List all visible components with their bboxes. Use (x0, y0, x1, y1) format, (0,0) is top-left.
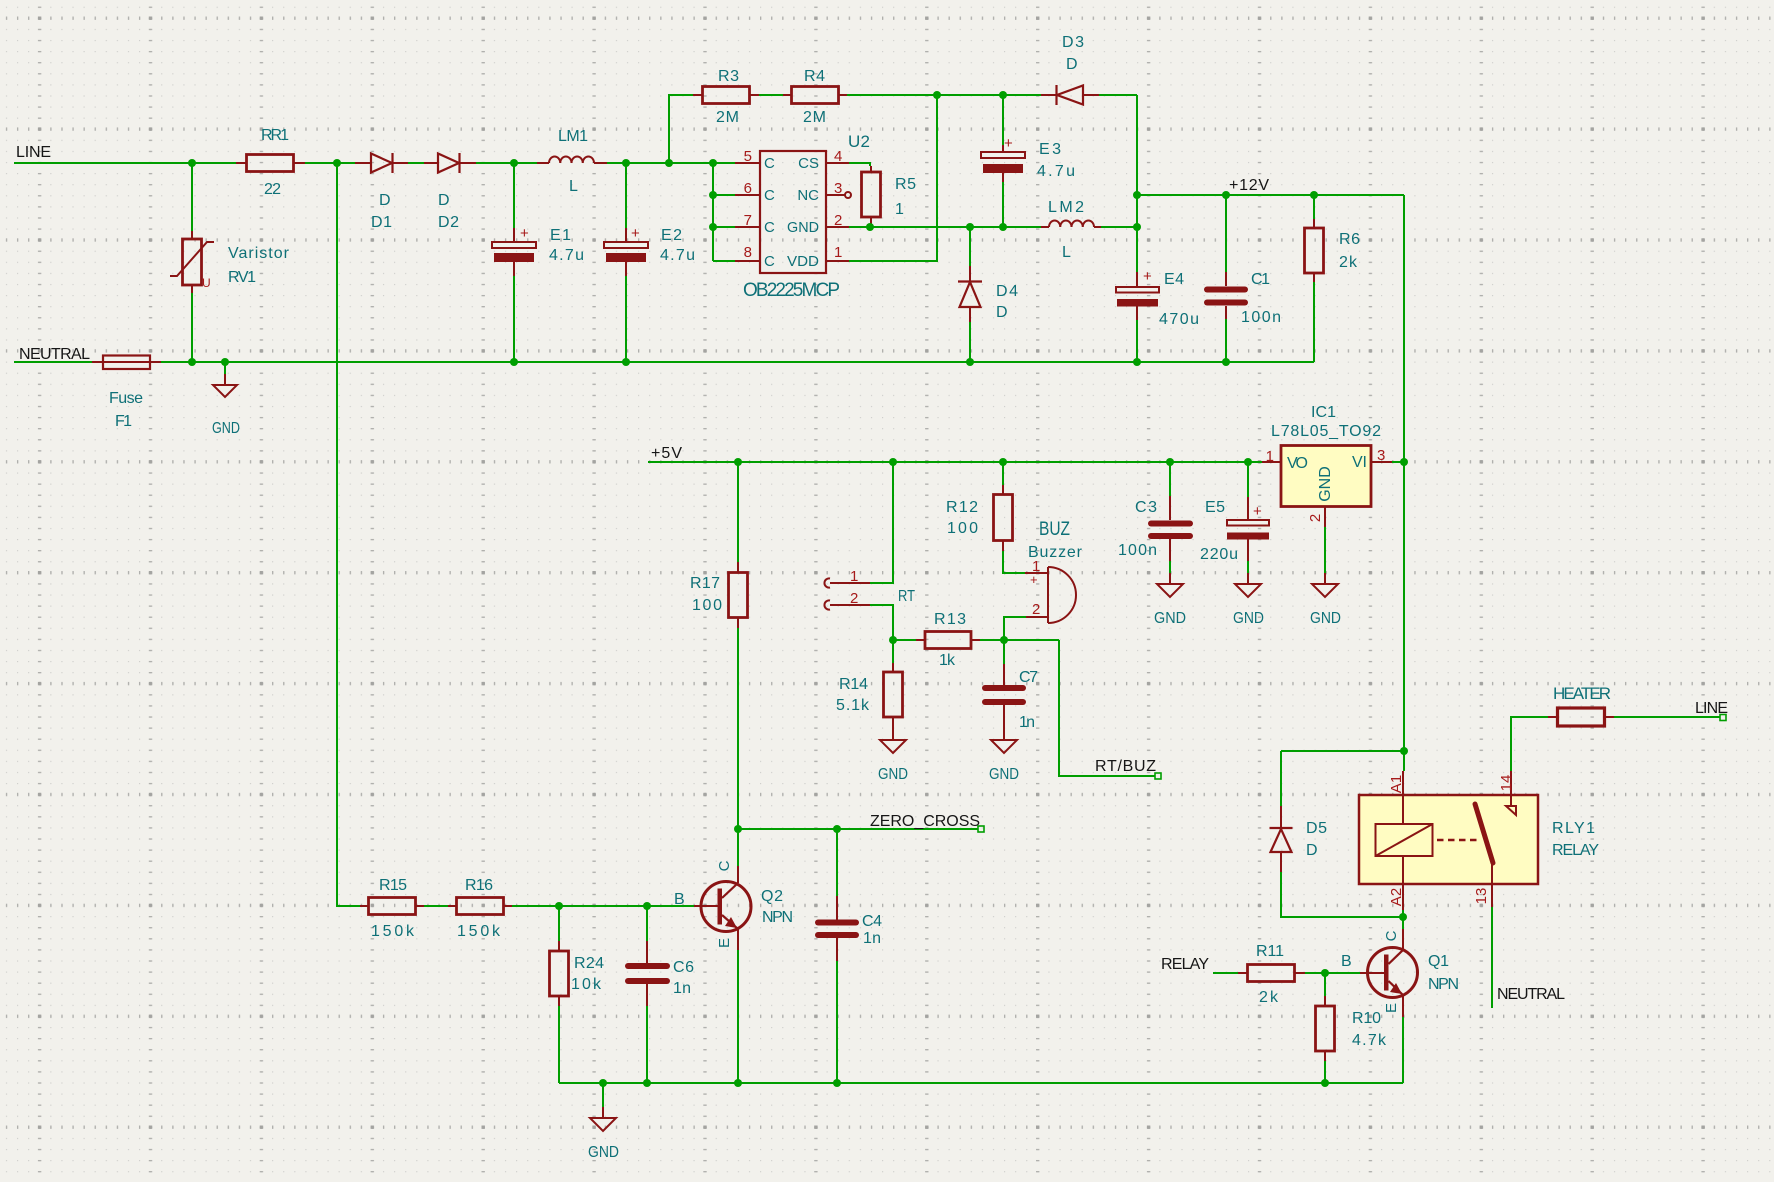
wire relay A2 to Q1 collector (1402, 910, 1404, 929)
resistor R5 (862, 166, 917, 227)
wire C3 to GND (1169, 561, 1171, 573)
svg-text:C3: C3 (1135, 499, 1157, 516)
svg-text:1n: 1n (1019, 714, 1035, 731)
svg-text:C: C (764, 155, 775, 172)
svg-text:2: 2 (1032, 601, 1040, 618)
svg-text:10k: 10k (571, 976, 602, 993)
svg-text:1n: 1n (863, 930, 881, 947)
svg-text:100: 100 (692, 597, 722, 614)
wire C7 top (1003, 640, 1005, 664)
wire U2 pin8 stub (713, 260, 735, 262)
wire E4 top (1136, 227, 1138, 272)
svg-text:R16: R16 (465, 877, 493, 894)
svg-text:L78L05_TO92: L78L05_TO92 (1271, 423, 1381, 440)
svg-text:E4: E4 (1164, 271, 1184, 288)
junction IC1 pin3 (1400, 458, 1408, 466)
svg-text:D4: D4 (996, 283, 1018, 300)
svg-text:E: E (716, 938, 733, 948)
wire relay pin14 up to heater (1511, 717, 1548, 771)
svg-text:+: + (1253, 503, 1262, 520)
svg-text:B: B (1341, 953, 1352, 970)
svg-text:R15: R15 (379, 877, 407, 894)
wire E3 top (1002, 95, 1004, 145)
svg-text:NPN: NPN (1428, 976, 1459, 993)
svg-text:R4: R4 (804, 68, 825, 85)
svg-text:4.7k: 4.7k (1352, 1032, 1387, 1049)
wire R17 to Q2 collector (737, 628, 739, 866)
svg-text:NEUTRAL: NEUTRAL (19, 346, 90, 363)
capacitor E1 (492, 225, 584, 276)
svg-text:C: C (716, 860, 733, 871)
junction U2 pin5 (709, 159, 717, 167)
svg-text:100n: 100n (1118, 542, 1157, 559)
wire U2 left pins vertical (712, 163, 714, 261)
svg-text:220u: 220u (1200, 546, 1238, 563)
resistor R15 (360, 877, 424, 940)
ground symbol under C7 (989, 740, 1019, 783)
svg-text:RLY1: RLY1 (1552, 820, 1595, 837)
wire E2 top (625, 163, 627, 228)
svg-text:2k: 2k (1339, 254, 1358, 271)
svg-text:2M: 2M (803, 109, 826, 126)
junction LM2-E4 (1133, 223, 1141, 231)
wire E1 top (513, 163, 515, 228)
capacitor C4 (818, 896, 882, 961)
junction +5V-E5 (1244, 458, 1252, 466)
svg-text:U2: U2 (848, 132, 870, 151)
buzzer BUZ (1025, 519, 1083, 623)
wire C1 bottom (1225, 319, 1227, 362)
wire R11 to Q1 base (1305, 972, 1360, 974)
svg-text:C7: C7 (1019, 669, 1038, 686)
wire R15 lead-in (359, 905, 361, 907)
svg-text:5.1k: 5.1k (836, 697, 870, 714)
wire D3 column down (1136, 95, 1138, 195)
svg-text:VDD: VDD (787, 253, 819, 270)
svg-text:CS: CS (798, 155, 819, 172)
diode D3 (1041, 34, 1099, 105)
wire heater to LINE label (1614, 716, 1720, 718)
svg-text:B: B (674, 891, 685, 908)
wire +12V rail (1137, 194, 1404, 196)
svg-text:1: 1 (834, 244, 842, 261)
junction NEUTRAL-E1 (510, 358, 518, 366)
svg-text:R13: R13 (934, 611, 966, 628)
wire C1 top (1225, 195, 1227, 272)
wire D4 top (969, 227, 971, 266)
svg-text:R11: R11 (1256, 943, 1284, 960)
svg-text:C: C (764, 187, 775, 204)
svg-text:1n: 1n (673, 980, 691, 997)
junction R11-R10 (1321, 969, 1329, 977)
wire U2 pin7 stub (713, 226, 735, 228)
junction base-C6 (643, 902, 651, 910)
wire E2 bottom (625, 276, 627, 362)
wire VDD riser (849, 95, 937, 261)
capacitor E3 (981, 135, 1075, 182)
svg-text:RR1: RR1 (261, 127, 289, 144)
svg-text:8: 8 (744, 244, 752, 261)
svg-text:Buzzer: Buzzer (1028, 544, 1083, 561)
ground symbol under IC1 pin2 (1310, 573, 1341, 627)
svg-text:A1: A1 (1388, 775, 1405, 793)
svg-text:4.7u: 4.7u (549, 247, 584, 264)
wire Q2 base (647, 905, 694, 907)
svg-text:RELAY: RELAY (1161, 956, 1209, 973)
wire D4 bottom (969, 322, 971, 362)
svg-text:E5: E5 (1205, 499, 1225, 516)
svg-text:2: 2 (1307, 514, 1324, 522)
junction rail-Q2E (734, 1079, 742, 1087)
svg-text:+: + (631, 225, 640, 242)
wire R24 top (558, 906, 560, 941)
wire E5 top (1247, 462, 1249, 497)
junction ZERO_CROSS-C4 (833, 825, 841, 833)
svg-text:ZERO_CROSS: ZERO_CROSS (870, 813, 980, 830)
svg-text:+5V: +5V (651, 445, 682, 462)
wire NEUTRAL rail (161, 361, 1314, 363)
wire RR1 to D1 (305, 162, 355, 164)
ground symbol under C3 (1154, 573, 1186, 627)
svg-text:R24: R24 (574, 955, 604, 972)
wire GND bottom rail (559, 1082, 1403, 1084)
junction E3-pin2 (999, 223, 1007, 231)
junction LINE-R3riser (665, 159, 673, 167)
junction base-R24 (555, 902, 563, 910)
junction relay A1 (1400, 747, 1408, 755)
transistor Q2 (674, 860, 793, 950)
wire D5 branch top (1281, 750, 1404, 752)
svg-text:C: C (764, 219, 775, 236)
junction rail-R10 (1321, 1079, 1329, 1087)
resistor R12 (946, 485, 1013, 551)
svg-text:GND: GND (212, 420, 240, 437)
junction rail-C4 (833, 1079, 841, 1087)
IC U2 OB2225MCP (735, 132, 870, 301)
wire varistor top (191, 163, 193, 231)
junction +5V-R12 (999, 458, 1007, 466)
ground symbol under R14 (878, 740, 908, 783)
wire C4 bottom (836, 961, 838, 1083)
svg-text:OB2225MCP: OB2225MCP (743, 280, 840, 301)
wire RT pin1 to +5V (870, 462, 893, 583)
diode D2 (424, 153, 476, 231)
wire D3 to corner (1099, 94, 1137, 96)
label ZERO_CROSS (870, 813, 984, 832)
svg-text:R6: R6 (1339, 231, 1360, 248)
svg-text:U: U (202, 276, 211, 290)
svg-text:Varistor: Varistor (228, 245, 290, 262)
wire LINE rail left (14, 162, 236, 164)
svg-text:R17: R17 (690, 575, 720, 592)
svg-text:Q1: Q1 (1428, 953, 1449, 970)
resistor R3 (693, 68, 759, 126)
svg-text:GND: GND (878, 766, 908, 783)
svg-text:C1: C1 (1251, 271, 1270, 288)
resistor R24 (550, 941, 605, 1006)
svg-text:+: + (520, 225, 529, 242)
junction D3-E3 (999, 91, 1007, 99)
svg-text:2: 2 (834, 212, 842, 229)
diode D4 (958, 266, 1018, 322)
svg-text:C: C (1383, 930, 1400, 941)
wire R10 bottom (1324, 1061, 1326, 1083)
junction NEUTRAL-GND (221, 358, 229, 366)
svg-text:+: + (1004, 135, 1013, 152)
svg-text:3: 3 (834, 180, 842, 197)
junction NEUTRAL-E4 (1133, 358, 1141, 366)
wire IC1 pin3 to +12V vertical (1392, 461, 1404, 463)
capacitor C6 (628, 941, 694, 1006)
junction +5V-RT (889, 458, 897, 466)
svg-text:1: 1 (850, 568, 858, 585)
wire IC1 pin2 down (1324, 527, 1326, 573)
svg-text:D1: D1 (371, 214, 392, 231)
junction NEUTRAL-C1 (1222, 358, 1230, 366)
svg-text:GND: GND (1233, 610, 1264, 627)
svg-text:D5: D5 (1306, 820, 1327, 837)
svg-text:E1: E1 (550, 227, 571, 244)
wire C3 top (1169, 462, 1171, 496)
junction LINE-E2 (622, 159, 630, 167)
wire R6 top (1313, 195, 1315, 219)
svg-text:IC1: IC1 (1311, 404, 1336, 421)
ground symbol under E5 (1233, 573, 1264, 627)
junction ZERO_CROSS-Q2 (734, 825, 742, 833)
junction R5-pin2 (866, 223, 874, 231)
svg-text:7: 7 (744, 212, 752, 229)
junction NEUTRAL-varistor (188, 358, 196, 366)
junction U2 pin6 (709, 191, 717, 199)
wire RELAY label to R11 (1213, 972, 1238, 974)
svg-text:+12V: +12V (1229, 177, 1269, 194)
svg-text:F1: F1 (115, 413, 132, 430)
wire varistor bottom (191, 293, 193, 362)
varistor RV1 (170, 231, 290, 293)
wire R12 to buzzer pin1 (1003, 551, 1025, 573)
svg-text:RELAY: RELAY (1552, 842, 1599, 859)
wire up to R3 (669, 95, 693, 163)
wire down to RT/BUZ label (1059, 640, 1155, 776)
svg-text:R14: R14 (839, 676, 868, 693)
svg-text:E: E (1383, 1003, 1400, 1013)
svg-text:R3: R3 (718, 68, 739, 85)
wire R24 bottom to GND rail (558, 1006, 560, 1083)
svg-text:D: D (379, 192, 391, 209)
svg-text:RT: RT (898, 588, 915, 605)
wire NEUTRAL rail left (14, 361, 92, 363)
wire GND stem at fuse (224, 362, 226, 374)
diode D1 (355, 153, 408, 231)
junction R13-C7 (1000, 636, 1008, 644)
svg-text:VI: VI (1352, 454, 1367, 471)
svg-text:4.7u: 4.7u (1037, 163, 1075, 180)
resistor R13 (916, 611, 980, 669)
junction +12V-C1 (1222, 191, 1230, 199)
junction +5V-C3 (1166, 458, 1174, 466)
resistor RR1 (236, 127, 305, 198)
label LINE right (1695, 700, 1728, 721)
svg-text:C: C (764, 253, 775, 270)
transistor Q1 (1341, 929, 1459, 1017)
svg-text:NC: NC (797, 187, 819, 204)
wire D2 to LM1 (476, 162, 537, 164)
resistor R6 (1305, 219, 1361, 282)
wire C6 top (646, 906, 648, 941)
svg-text:D: D (438, 192, 450, 209)
svg-text:D: D (996, 304, 1008, 321)
svg-text:RT/BUZ: RT/BUZ (1095, 758, 1156, 775)
wire E3 bottom (1002, 182, 1004, 227)
wire Q2 emitter down (737, 950, 739, 1083)
svg-text:GND: GND (1154, 610, 1186, 627)
svg-text:1k: 1k (939, 652, 956, 669)
capacitor E5 (1200, 497, 1269, 563)
junction NEUTRAL-D4 (966, 358, 974, 366)
wire R4 to D3 (847, 94, 1041, 96)
wire LM1 to U2 pin5 (607, 162, 735, 164)
resistor R17 (690, 562, 748, 628)
junction rail-GND (599, 1079, 607, 1087)
svg-text:GND: GND (1310, 610, 1341, 627)
wire D5 top (1280, 751, 1282, 806)
wire +5V rail (648, 461, 1262, 463)
voltage regulator IC1 L78L05_TO92 (1262, 404, 1392, 527)
wire CS to R5 (849, 163, 870, 166)
wire E5 to GND (1247, 561, 1249, 573)
svg-text:NEUTRAL: NEUTRAL (1497, 986, 1565, 1003)
wire relay pin13 down (1491, 907, 1493, 1008)
junction LINE-E1 (510, 159, 518, 167)
svg-text:GND: GND (989, 766, 1019, 783)
wire U2 pin2 row (849, 226, 1041, 228)
resistor R11 (1238, 943, 1305, 1006)
svg-text:+: + (1143, 268, 1152, 285)
junction rail-C6 (643, 1079, 651, 1087)
svg-text:D2: D2 (438, 214, 459, 231)
svg-text:VO: VO (1287, 455, 1308, 472)
wire +12V to LM2 row (1136, 195, 1138, 227)
junction D4-pin2 (966, 223, 974, 231)
svg-text:LM2: LM2 (1048, 199, 1084, 216)
wire LINE to R15 long vertical (337, 163, 360, 906)
svg-text:6: 6 (744, 180, 752, 197)
wire R6 bottom to NEUTRAL rail corner (1313, 282, 1315, 362)
svg-text:RV1: RV1 (228, 269, 256, 286)
svg-text:D: D (1306, 842, 1318, 859)
resistor R4 (783, 68, 847, 126)
wire R3 to R4 (759, 94, 783, 96)
inductor LM1 (537, 128, 607, 195)
capacitor E2 (604, 225, 695, 276)
wire LM2 to E4 column (1101, 226, 1137, 228)
wire R14 top (892, 640, 894, 663)
svg-text:C6: C6 (673, 959, 694, 976)
svg-text:+: + (1030, 572, 1038, 587)
inductor LM2 (1041, 199, 1101, 261)
wire junction to R13 (893, 639, 916, 641)
junction +5V-R17 (734, 458, 742, 466)
svg-text:GND: GND (787, 219, 819, 236)
svg-text:13: 13 (1473, 888, 1490, 905)
svg-text:2: 2 (850, 590, 858, 607)
svg-text:Fuse: Fuse (109, 390, 143, 407)
connector RT (824, 568, 915, 610)
junction +12V-R6 (1310, 191, 1318, 199)
junction U2 pin7 (709, 223, 717, 231)
junction R4-VDD (933, 91, 941, 99)
diode D5 (1270, 806, 1328, 872)
junction +12V-E4col (1133, 191, 1141, 199)
svg-text:2M: 2M (716, 109, 739, 126)
svg-text:5: 5 (744, 148, 752, 165)
junction RT2-R13 (889, 636, 897, 644)
capacitor C3 (1118, 496, 1190, 561)
svg-text:D: D (1066, 56, 1078, 73)
label RT/BUZ (1095, 758, 1161, 779)
svg-text:3: 3 (1377, 447, 1385, 464)
fuse F1 (92, 356, 161, 431)
svg-text:Q2: Q2 (761, 888, 783, 905)
svg-text:GND: GND (1317, 466, 1334, 502)
wire C6 bottom (646, 1006, 648, 1083)
wire buzzer pin2 to junction (1004, 617, 1026, 640)
wire R15 to R16 (424, 905, 448, 907)
svg-text:D3: D3 (1062, 34, 1084, 51)
wire RT pin2 down (870, 605, 893, 640)
capacitor C1 (1207, 271, 1281, 326)
wire GND stem bottom (602, 1083, 604, 1107)
svg-text:4.7u: 4.7u (660, 247, 695, 264)
svg-text:4: 4 (834, 148, 842, 165)
svg-text:L: L (569, 178, 578, 195)
wire U2 pin6 stub (713, 194, 735, 196)
junction LINE-varistor (188, 159, 196, 167)
wire R16 to Q2 base junctions (512, 905, 647, 907)
wire ZERO_CROSS (738, 828, 978, 830)
resistor R10 (1316, 996, 1388, 1061)
capacitor C7 (985, 664, 1038, 740)
svg-text:R12: R12 (946, 499, 978, 516)
wire R17 top (737, 462, 739, 562)
svg-text:A2: A2 (1388, 888, 1405, 906)
wire R13 to RT/BUZ corner (980, 639, 1059, 641)
junction NEUTRAL-E2 (622, 358, 630, 366)
svg-text:470u: 470u (1159, 311, 1199, 328)
wire E4 bottom (1136, 320, 1138, 362)
svg-text:1: 1 (1266, 448, 1274, 465)
svg-text:L: L (1062, 244, 1071, 261)
svg-text:LM1: LM1 (558, 128, 588, 145)
svg-text:22: 22 (264, 181, 281, 198)
wire R10 top (1324, 973, 1326, 996)
svg-text:NPN: NPN (762, 909, 793, 926)
wire +12V right vertical (1403, 195, 1405, 771)
svg-text:C4: C4 (862, 913, 882, 930)
relay RLY1 (1359, 771, 1599, 910)
wire C4 top (836, 829, 838, 896)
svg-text:R5: R5 (895, 176, 916, 193)
svg-text:14: 14 (1498, 775, 1515, 792)
wire Q1 emitter to rail (1402, 1017, 1404, 1083)
svg-text:E2: E2 (661, 227, 682, 244)
resistor R16 (448, 877, 512, 940)
wire D1 to D2 (408, 162, 424, 164)
resistor R14 (836, 663, 903, 740)
wire R12 top (1002, 462, 1004, 485)
svg-text:100: 100 (947, 520, 978, 537)
junction LINE-vertical (333, 159, 341, 167)
